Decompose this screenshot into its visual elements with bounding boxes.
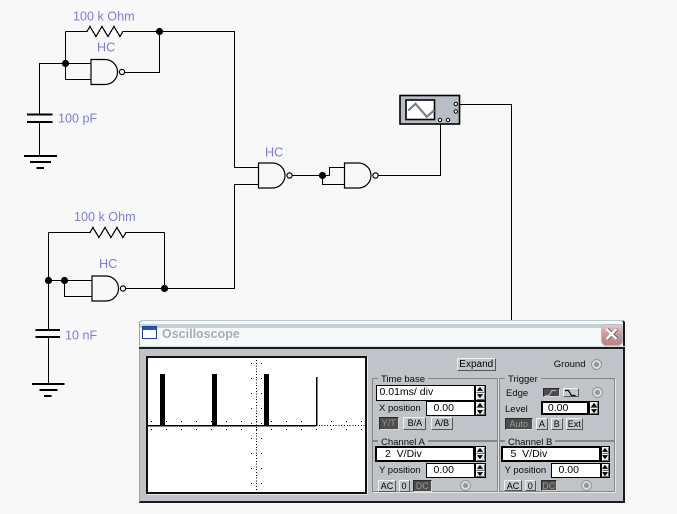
node N5 junction (161, 285, 168, 292)
svg-text:100 k Ohm: 100 k Ohm (73, 10, 135, 24)
wire R1 left to node N2 (65, 32, 67, 64)
svg-text:HC: HC (97, 41, 115, 55)
Channel B group (499, 441, 615, 492)
wire U3 output to node N5 (126, 288, 165, 290)
oscilloscope instrument window (139, 320, 625, 503)
wire R2 right to node N5 (164, 233, 166, 289)
wire U3 input B (65, 281, 93, 297)
wire U4 output to oscilloscope bottom terminal (378, 122, 440, 176)
node N1 junction (156, 28, 163, 35)
node N3 junction (45, 277, 52, 284)
op-amp U1 NAND gate HC (91, 41, 125, 85)
node N6 junction (319, 172, 326, 179)
wire N2 to C1 (40, 64, 66, 114)
wire U1 input A (66, 63, 92, 65)
op-amp U4 NAND gate (345, 163, 379, 188)
capacitor C2 10 nF (36, 329, 98, 343)
svg-text:100 pF: 100 pF (58, 112, 98, 126)
wire U1 input B (66, 64, 92, 80)
ground GND1 (24, 156, 57, 168)
wire U1 output feedback to node N1 (125, 32, 160, 73)
Channel A group (372, 441, 498, 492)
wire N5 to U2 input B (165, 185, 259, 289)
wire U3 input A (65, 280, 93, 282)
scope display (146, 356, 367, 494)
wire C2 to ground (48, 338, 50, 383)
svg-text:HC: HC (99, 257, 117, 271)
wire U2 output to node N6 (292, 175, 322, 177)
op-amp U3 NAND gate HC bottom (92, 257, 126, 301)
waveform trace channel A (148, 374, 317, 426)
ground GND2 (32, 384, 65, 396)
node N4 junction (61, 277, 68, 284)
wire N6 to U4 input B (323, 176, 345, 185)
Expand button (457, 358, 496, 371)
svg-text:10 nF: 10 nF (65, 329, 98, 343)
wire N3 to N4 (49, 280, 65, 282)
wire R2 left to node N3 (48, 233, 50, 281)
wire node N1 to U2 input A (160, 32, 259, 168)
svg-text:HC: HC (265, 146, 283, 160)
Trigger group (499, 378, 615, 441)
Time base group (372, 378, 498, 441)
grid centre lines dotted (148, 360, 365, 492)
resistor R2 100 k Ohm (49, 210, 165, 238)
op-amp U2 NAND gate HC middle (259, 146, 293, 189)
Ground label (554, 359, 586, 370)
wire C1 to ground (39, 123, 41, 155)
svg-text:100 k Ohm: 100 k Ohm (74, 210, 136, 224)
resistor R1 100 k Ohm (66, 10, 160, 37)
wire XSC1 right terminal to instrument window (460, 105, 512, 321)
node N2 junction (62, 60, 69, 67)
Ground indicator (591, 359, 602, 370)
oscilloscope icon XSC1 (400, 96, 460, 125)
wire N6 to U4 input A (323, 168, 345, 176)
wire N3 to C2 (48, 281, 50, 330)
capacitor C1 100 pF (27, 112, 98, 126)
